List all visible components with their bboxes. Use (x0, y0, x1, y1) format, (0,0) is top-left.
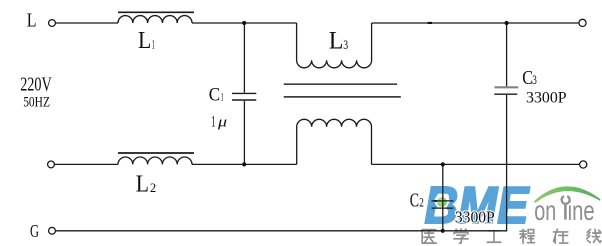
svg-text:2: 2 (419, 196, 424, 210)
svg-text:L: L (329, 28, 344, 55)
svg-text:L: L (138, 28, 151, 54)
svg-text:on: on (534, 195, 556, 226)
svg-text:3300P: 3300P (526, 87, 567, 106)
svg-text:1: 1 (211, 114, 216, 131)
svg-text:1: 1 (221, 90, 224, 104)
svg-text:L: L (136, 172, 149, 198)
svg-text:50HZ: 50HZ (23, 95, 50, 111)
svg-text:C: C (209, 85, 220, 106)
svg-text:3300P: 3300P (455, 208, 495, 227)
svg-text:3: 3 (343, 37, 348, 52)
svg-text:G: G (30, 221, 39, 241)
svg-text:L: L (27, 9, 37, 31)
svg-text:C: C (410, 191, 419, 212)
svg-text:1: 1 (152, 38, 155, 52)
svg-text:3: 3 (532, 72, 537, 87)
svg-text:μ: μ (217, 114, 228, 130)
svg-text:220V: 220V (20, 73, 52, 95)
svg-text:2: 2 (150, 181, 156, 195)
svg-text:ine: ine (568, 195, 595, 226)
